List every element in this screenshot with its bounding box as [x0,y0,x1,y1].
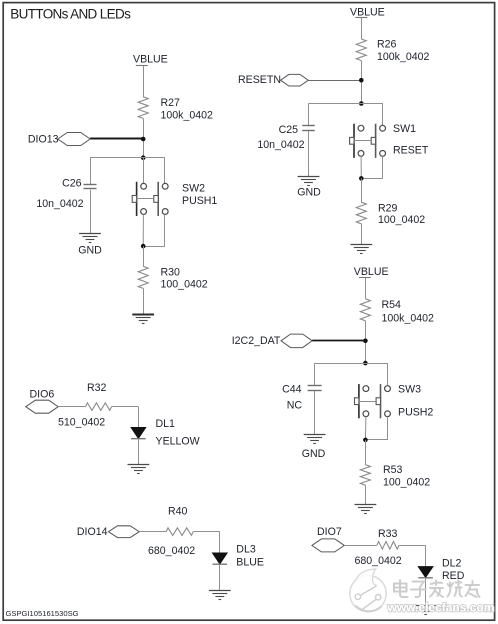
resistor R53 [360,465,370,486]
wire DL1 to ground [138,440,140,465]
svg-text:BUTTONs AND LEDs: BUTTONs AND LEDs [10,6,131,21]
wire DIO14 to R40 [139,531,166,533]
svg-text:VBLUE: VBLUE [350,7,385,19]
wire node to R29 [361,178,363,202]
capacitor C25 [302,126,315,131]
svg-text:www.elecfans.com: www.elecfans.com [387,601,495,615]
wire SW3 pin4 to node [365,439,387,441]
ground below C26 [79,234,101,243]
svg-text:DIO13: DIO13 [28,133,59,145]
junction I2C2_DAT/R54 [363,339,368,344]
junction SW2 top node [141,155,146,160]
resistor R54 [360,299,370,321]
resistor R29 [356,202,366,224]
svg-text:R33: R33 [378,528,398,540]
capacitor C26 [84,185,97,189]
push-button switch SW2 [132,182,168,216]
svg-text:510_0402: 510_0402 [58,417,105,429]
wire R40 to corner [193,531,220,533]
ground below C25 [298,177,320,186]
svg-text:R30: R30 [161,266,181,278]
wire VBLUE to R54 [365,277,367,298]
svg-text:YELLOW: YELLOW [156,436,200,448]
wire SW2 pin3 to node [142,214,144,246]
resistor R40 [166,528,193,536]
svg-text:NC: NC [287,400,303,412]
svg-text:RESETN: RESETN [238,74,281,86]
wire corner to DL2 [425,545,427,566]
port RESETN [281,74,309,86]
svg-text:GND: GND [297,186,321,198]
junction SW1 bottom node [359,176,364,181]
wire R30 to ground [143,288,145,314]
LED DL3 [213,553,228,564]
ground below C44 [304,435,326,444]
svg-text:100k_0402: 100k_0402 [377,51,430,63]
svg-text:PUSH1: PUSH1 [182,195,217,207]
junction SW2 bottom node [141,244,146,249]
junction RESETN/R26 [359,78,364,83]
wire R26 to junctions [361,61,363,104]
svg-text:R54: R54 [382,299,402,311]
wire to C44 top [314,363,316,386]
port DIO13 [58,133,90,146]
wire SW2 pin4 to node [143,246,165,248]
wire DIO6 to R32 [58,406,85,408]
wire SW1 top rail [309,103,383,105]
push-button switch SW1 [350,124,386,158]
svg-text:DL1: DL1 [156,418,176,430]
svg-text:BLUE: BLUE [236,557,264,569]
power pin VBLUE (SW2 circuit) [136,65,148,67]
wire I2C2_DAT to junction [312,340,365,342]
wire to C26 top [90,158,92,185]
wire DL3 to ground [219,565,221,591]
svg-text:100_0402: 100_0402 [383,476,430,488]
svg-text:VBLUE: VBLUE [133,54,168,66]
svg-text:GND: GND [78,244,102,256]
svg-text:VBLUE: VBLUE [354,266,389,278]
svg-text:C25: C25 [279,124,299,136]
svg-text:DIO6: DIO6 [30,388,55,400]
ground below DL1 [128,465,150,474]
svg-text:GND: GND [302,448,326,460]
wire drop to SW3 pin2 [387,363,389,386]
ground below DL2 [415,606,437,615]
wire drop to SW2 pin1 [143,158,145,184]
svg-text:RESET: RESET [393,145,429,157]
svg-text:100k_0402: 100k_0402 [161,109,214,121]
port DIO6 [26,400,58,413]
svg-text:DL2: DL2 [442,557,462,569]
svg-text:10n_0402: 10n_0402 [36,198,83,210]
wire C26 to GND [90,190,92,234]
svg-text:680_0402: 680_0402 [148,545,195,557]
LED DL1 [131,428,146,439]
svg-text:100_0402: 100_0402 [161,279,208,291]
wire drop to SW2 pin2 [164,158,166,184]
resistor R32 [86,403,112,411]
port DIO14 [109,526,140,538]
ground below R30 [132,315,154,324]
junction SW3 top node [363,361,368,366]
ground below DL3 [209,591,231,600]
svg-text:C44: C44 [282,384,302,396]
svg-text:R32: R32 [87,382,107,394]
svg-text:SW1: SW1 [393,123,416,135]
svg-text:100_0402: 100_0402 [378,214,425,226]
wire SW1 pin3 to node [360,156,362,178]
resistor R33 [377,542,399,550]
svg-text:R29: R29 [378,202,398,214]
wire SW3 pin3 to node [364,417,367,440]
wire R32 to corner [112,406,139,408]
ground below R29 [350,245,372,254]
wire C25 to GND [308,131,310,176]
wire SW1 pin4 to node [361,178,382,180]
wire C44 to GND [314,391,316,435]
svg-text:680_0402: 680_0402 [355,555,402,567]
resistor R27 [138,97,148,119]
wire node to R53 [365,440,367,465]
svg-text:SW2: SW2 [182,183,205,195]
svg-text:10n_0402: 10n_0402 [257,139,304,151]
svg-text:R53: R53 [383,464,403,476]
svg-text:SW3: SW3 [398,384,421,396]
svg-text:R26: R26 [377,39,397,51]
svg-text:DIO7: DIO7 [317,526,342,538]
junction DIO13/R27 [141,137,146,142]
wire corner to DL1 [138,407,140,428]
watermark: elecfans logo circle [350,569,386,612]
ground below R53 [355,505,377,514]
svg-text:R27: R27 [161,97,181,109]
svg-text:R40: R40 [168,505,188,517]
wire node to SW2 pin2 branch [143,157,165,159]
wire R33 to corner [399,545,426,547]
power pin VBLUE (SW3 circuit) [359,277,371,279]
wire R54 to junctions [365,321,367,363]
wire R29 to ground [361,224,363,245]
resistor R26 [356,39,366,61]
LED DL2 [418,567,433,578]
port I2C2_DAT [281,334,312,348]
svg-text:GSPGI105161530SG: GSPGI105161530SG [6,609,79,618]
wire R53 to ground [365,485,367,504]
wire RESETN to junction [308,80,361,82]
wire to C25 top [308,104,310,126]
wire SW2 pin4 down [164,214,166,246]
wire DIO13 to junction [90,138,143,140]
wire SW1 pin4 down [382,156,384,178]
wire R27 to junctions [143,118,145,157]
wire node to C26 branch [90,157,143,159]
resistor R30 [138,266,148,288]
svg-text:RED: RED [442,570,465,582]
junction SW1 top node [359,101,364,106]
wire node to R30 [143,246,145,266]
wire DL2 to ground [425,579,427,606]
wire SW3 pin4 down [387,417,389,440]
svg-text:PUSH2: PUSH2 [398,406,433,418]
svg-text:C26: C26 [62,178,82,190]
junction SW3 bottom node [363,438,368,443]
svg-text:DL3: DL3 [236,543,256,555]
wire DIO7 to R33 [344,545,377,547]
svg-text:100k_0402: 100k_0402 [382,312,435,324]
svg-text:DIO14: DIO14 [77,526,108,538]
capacitor C44 [308,386,322,391]
svg-text:I2C2_DAT: I2C2_DAT [232,335,281,347]
wire drop to SW1 pin2 [382,104,384,126]
wire corner to DL3 [219,532,221,553]
wire VBLUE to R26 [361,18,363,39]
watermark: chinese brand glyphs [394,580,480,597]
wire VBLUE to R27 [143,66,145,97]
push-button switch SW3 [355,384,391,418]
power pin VBLUE (SW1 circuit) [355,17,367,19]
port DIO7 [312,539,344,552]
wire SW3 top rail [315,363,388,365]
